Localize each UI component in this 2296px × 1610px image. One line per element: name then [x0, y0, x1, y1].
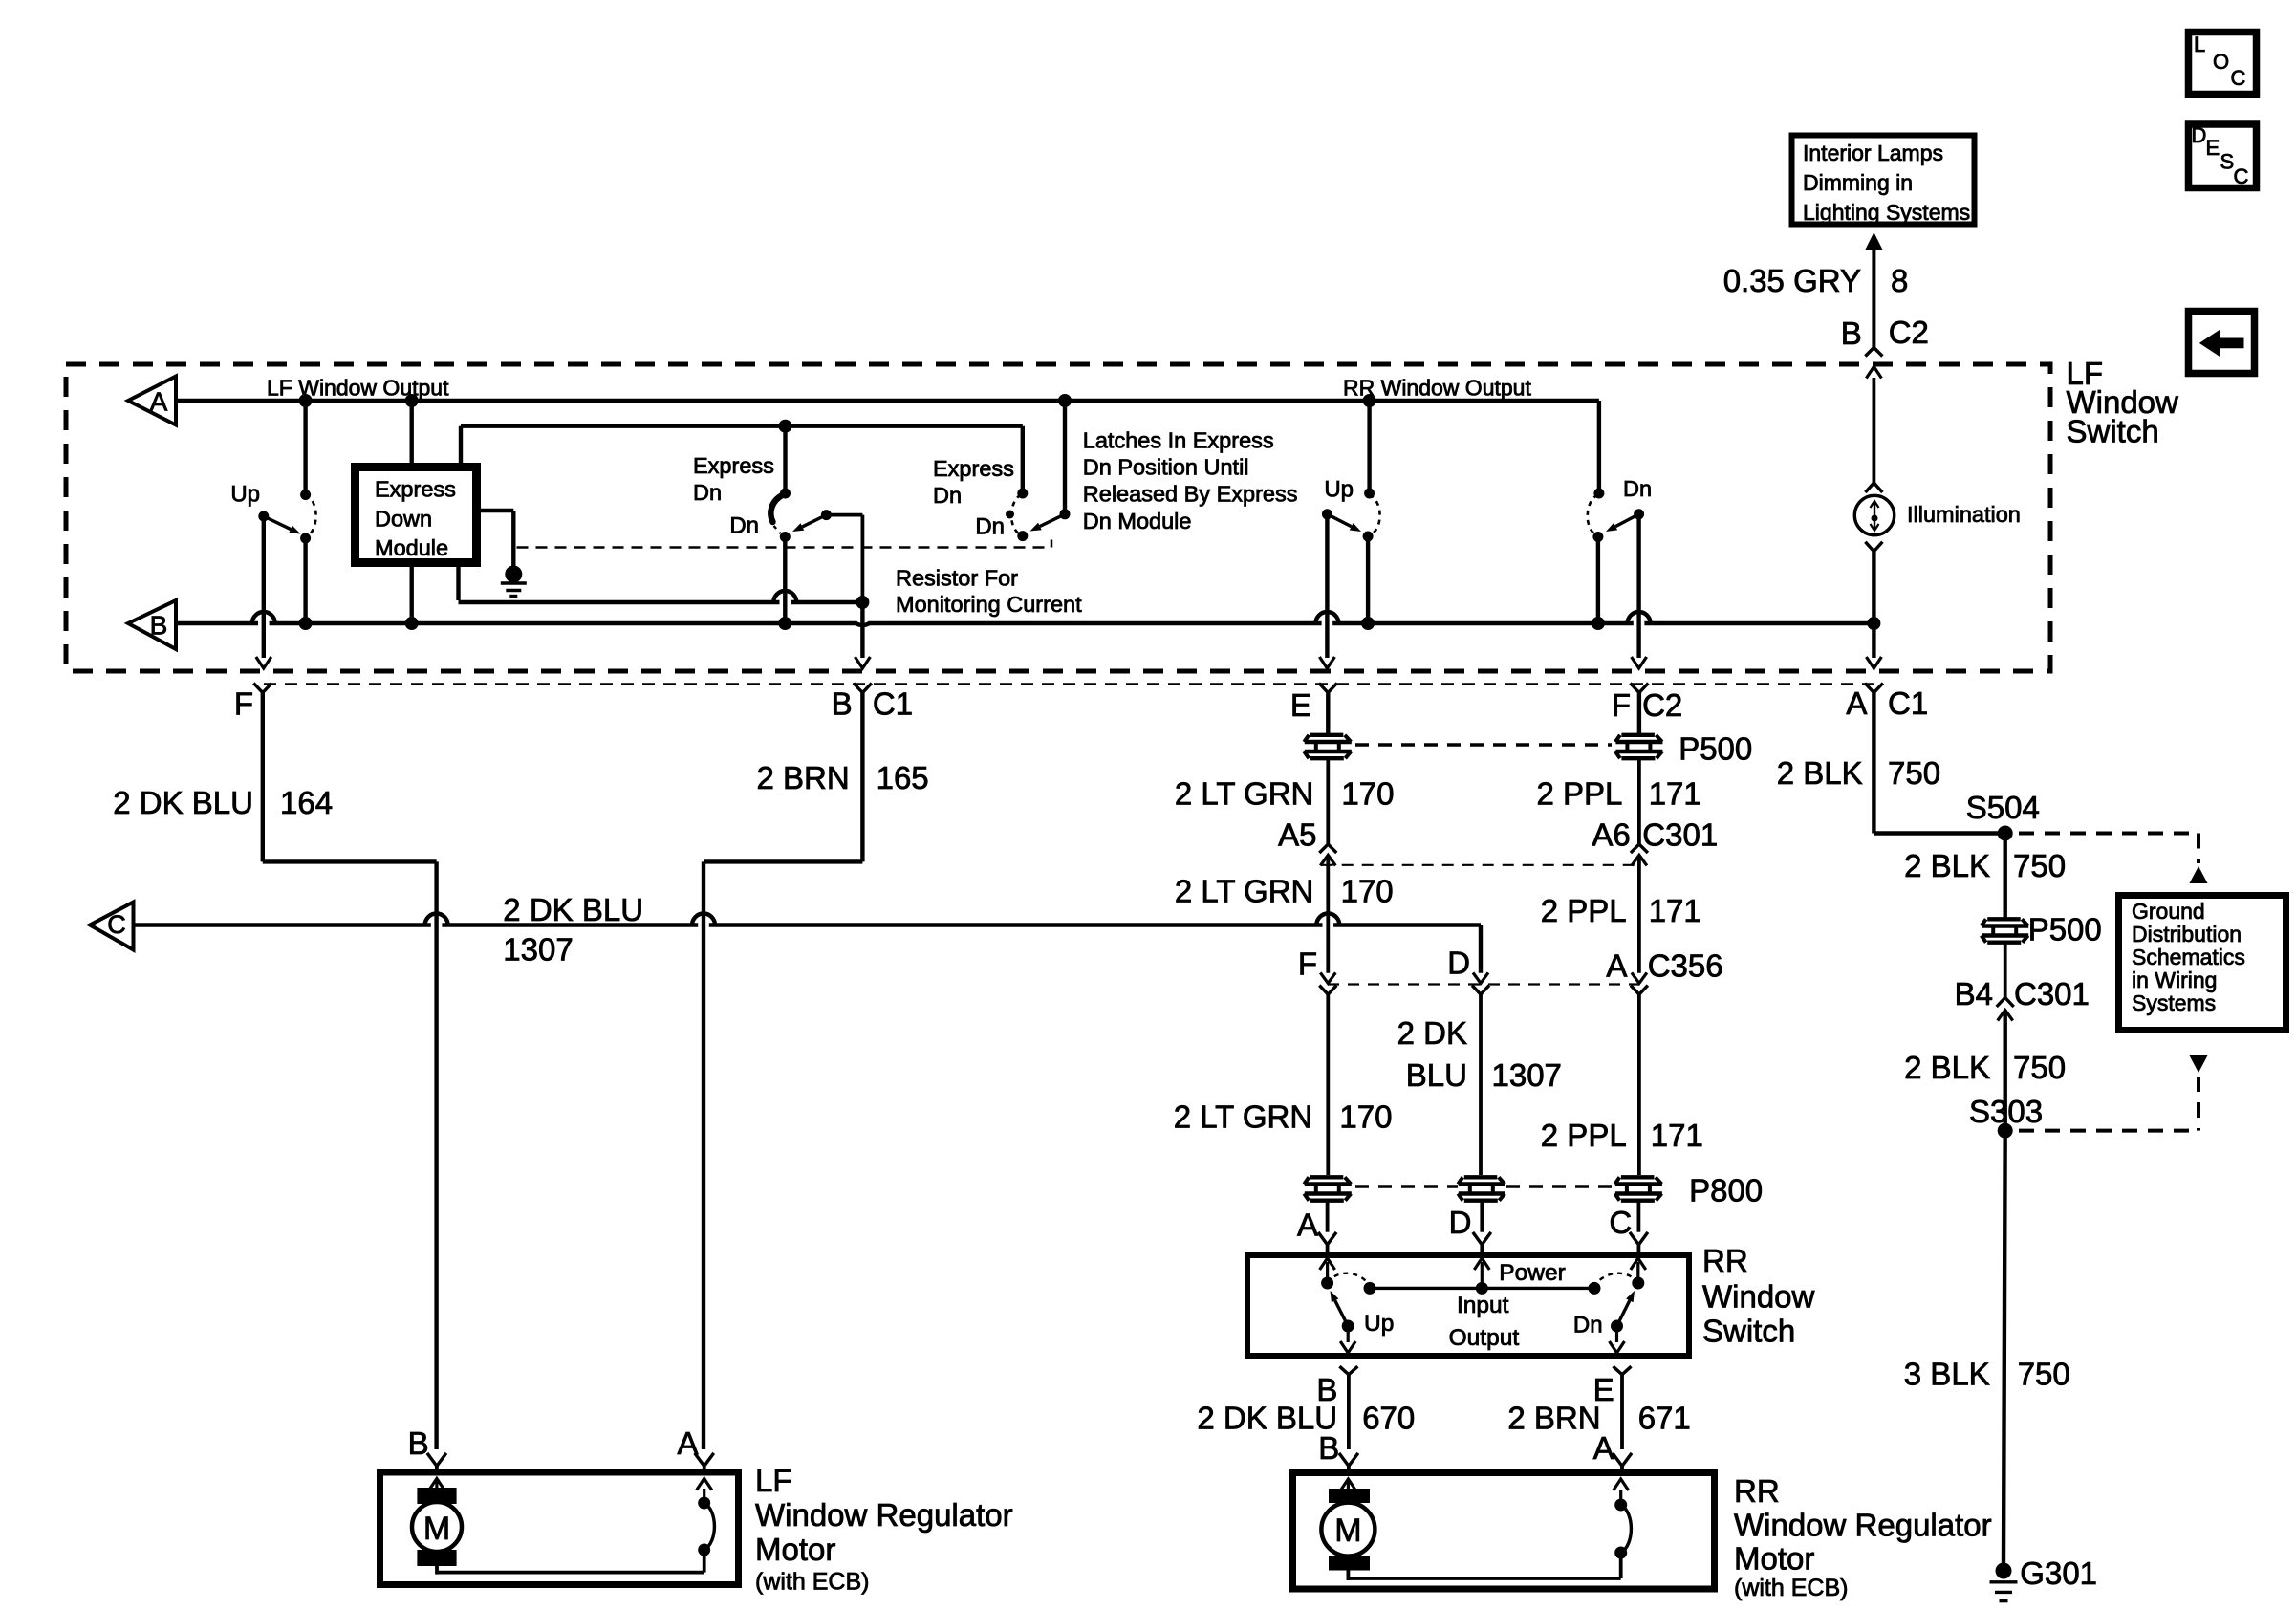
- svg-text:Window Regulator: Window Regulator: [755, 1497, 1013, 1533]
- ECB (LF motor): [703, 1550, 706, 1573]
- svg-text:C: C: [107, 910, 126, 939]
- connector D C356: [1473, 972, 1488, 983]
- svg-text:Switch: Switch: [1702, 1313, 1795, 1348]
- wire LF Up pivot to pin F: [262, 516, 266, 658]
- svg-text:O: O: [2213, 50, 2229, 74]
- svg-text:Output: Output: [1449, 1325, 1520, 1351]
- svg-text:2 PPL: 2 PPL: [1541, 893, 1627, 928]
- wire LF/RR window output (A wire): [176, 399, 1599, 402]
- svg-text:Lighting Systems: Lighting Systems: [1803, 200, 1970, 225]
- svg-text:C: C: [2231, 66, 2246, 90]
- connector D (RR switch): [1473, 1232, 1491, 1245]
- svg-text:170: 170: [1341, 776, 1394, 812]
- switch Express Dn 1: [783, 426, 787, 493]
- svg-text:LF Window Output: LF Window Output: [267, 375, 449, 400]
- destination box: Interior Lamps Dimming in Lighting Systems: [1792, 136, 1975, 225]
- svg-text:F: F: [1612, 687, 1631, 723]
- connector E (C2): [1319, 684, 1337, 693]
- svg-text:G301: G301: [2020, 1556, 2097, 1591]
- svg-text:2 LT GRN: 2 LT GRN: [1174, 1099, 1313, 1135]
- svg-text:750: 750: [2013, 848, 2066, 883]
- wire RR motor loop: [1347, 1571, 1351, 1581]
- dashed link P800: [1355, 1185, 1458, 1187]
- connector P800 right: [1621, 1175, 1655, 1179]
- dashed link S303 to ground distribution: [2190, 1055, 2208, 1073]
- wire express dn 1 pivot to monitor resistor: [826, 513, 862, 517]
- svg-text:RR: RR: [1702, 1243, 1748, 1278]
- wire to B4 C301: [2004, 945, 2007, 998]
- svg-text:671: 671: [1638, 1400, 1691, 1435]
- connector A6 C301: [1631, 844, 1648, 853]
- svg-text:2 LT GRN: 2 LT GRN: [1175, 874, 1314, 909]
- power bus wire: [1370, 1287, 1594, 1290]
- svg-text:2 DK BLU: 2 DK BLU: [503, 892, 643, 927]
- svg-text:A: A: [1297, 1207, 1318, 1242]
- wire B (switch common): [176, 621, 258, 625]
- wire RR up lower contact to B: [1366, 536, 1370, 623]
- Ground Distribution Schematics box: [2119, 896, 2286, 1031]
- svg-text:E: E: [1290, 687, 1311, 723]
- svg-text:Schematics: Schematics: [2132, 945, 2245, 969]
- connector dashed line C1 C2 row: [264, 683, 1874, 685]
- svg-text:Down: Down: [375, 506, 432, 531]
- svg-text:Power: Power: [1499, 1260, 1565, 1286]
- connector P500 pair right: [1621, 733, 1655, 737]
- svg-text:1307: 1307: [1492, 1057, 1562, 1093]
- connector forks into LF motor: [427, 1453, 446, 1467]
- switch LF Up: [300, 490, 311, 500]
- wire LF motor loop: [435, 1566, 439, 1575]
- svg-text:1307: 1307: [503, 932, 573, 968]
- svg-text:2 DK: 2 DK: [1397, 1015, 1467, 1051]
- connector P500 (ground): [1987, 917, 2021, 921]
- svg-text:in Wiring: in Wiring: [2132, 968, 2217, 992]
- splice S504: [1998, 826, 2013, 841]
- dashed link P500 pair: [1355, 743, 1612, 746]
- svg-text:B4: B4: [1955, 976, 1993, 1012]
- svg-text:Distribution: Distribution: [2132, 922, 2242, 946]
- connector B (RR switch output): [1339, 1366, 1357, 1375]
- wire 2 BLK 750 (S504 to P500): [2003, 834, 2006, 918]
- svg-text:Dn: Dn: [1623, 476, 1652, 501]
- svg-text:Monitoring Current: Monitoring Current: [896, 592, 1082, 617]
- svg-text:0.35 GRY: 0.35 GRY: [1723, 263, 1861, 298]
- wire EDM to A wire: [410, 401, 414, 463]
- Express Down Module box: [356, 468, 477, 563]
- wire 2 DK BLU 1307 (C wire): [134, 923, 431, 926]
- svg-text:165: 165: [877, 760, 929, 795]
- svg-text:A: A: [150, 386, 168, 416]
- pin C triangle: [90, 903, 134, 950]
- wire EDM ground leg: [478, 509, 513, 512]
- switch RR Up (in LF switch): [1367, 401, 1371, 493]
- svg-text:Motor: Motor: [755, 1532, 835, 1567]
- wire 2 DK BLU 164 (pin F to LF motor B): [261, 693, 265, 862]
- svg-text:2 DK BLU: 2 DK BLU: [1197, 1400, 1337, 1435]
- splice S303: [1998, 1123, 2013, 1139]
- connector C (RR switch): [1630, 1232, 1648, 1245]
- svg-text:P800: P800: [1689, 1173, 1763, 1208]
- svg-text:A: A: [1846, 685, 1867, 721]
- svg-text:2 PPL: 2 PPL: [1536, 776, 1622, 812]
- svg-text:Window: Window: [1702, 1278, 1815, 1314]
- svg-text:3 BLK: 3 BLK: [1904, 1357, 1990, 1392]
- LF window switch Up contact wire: [303, 401, 307, 495]
- RR Window Regulator Motor box: [1293, 1473, 1715, 1590]
- svg-text:(with ECB): (with ECB): [1734, 1575, 1848, 1601]
- svg-text:Resistor For: Resistor For: [896, 565, 1018, 590]
- svg-text:S504: S504: [1966, 790, 2040, 825]
- RR switch power arrow (pin D): [1481, 1262, 1484, 1288]
- svg-text:750: 750: [1888, 755, 1940, 791]
- wire RR dn lower contact to B: [1596, 537, 1600, 624]
- svg-text:Input: Input: [1457, 1293, 1509, 1318]
- motor M (RR): [1340, 1479, 1355, 1490]
- wire 2 BLK 750 (A C1 to S504): [1872, 693, 1875, 834]
- svg-text:C1: C1: [1888, 685, 1928, 721]
- mechanical link dashed line: [517, 546, 1052, 549]
- svg-text:B: B: [150, 610, 168, 640]
- svg-text:E: E: [2206, 136, 2220, 160]
- connector A5 C301: [1319, 844, 1336, 853]
- junction loop top / express dn switch 1: [779, 420, 792, 433]
- connector B C1: [854, 684, 872, 693]
- svg-text:M: M: [1334, 1512, 1361, 1549]
- svg-text:Dn: Dn: [933, 483, 962, 508]
- wire RR dn pivot to pin F C2: [1636, 514, 1640, 658]
- wire RR up pivot to pin E: [1325, 514, 1329, 658]
- svg-text:S: S: [2220, 150, 2235, 174]
- connector P800 middle: [1464, 1175, 1498, 1179]
- lamp Illumination: [1873, 378, 1876, 483]
- svg-text:C356: C356: [1648, 948, 1723, 984]
- svg-text:(with ECB): (with ECB): [755, 1569, 869, 1596]
- svg-text:Up: Up: [1364, 1311, 1394, 1337]
- connector B4 C301: [1997, 998, 2014, 1008]
- connector E (RR switch output): [1614, 1366, 1632, 1375]
- svg-text:RR: RR: [1734, 1473, 1780, 1509]
- back-arrow reference box: [2189, 312, 2255, 374]
- wire LF Up lower contact to B wire: [303, 538, 307, 623]
- svg-text:Up: Up: [1324, 477, 1354, 503]
- svg-text:L: L: [2194, 33, 2205, 56]
- svg-text:8: 8: [1891, 263, 1908, 298]
- connector F C2: [1630, 684, 1648, 693]
- svg-text:C301: C301: [2014, 976, 2090, 1012]
- switch RR window Dn (low side): [1632, 1277, 1644, 1290]
- connector A (RR switch): [1318, 1232, 1336, 1245]
- svg-text:Systems: Systems: [2132, 990, 2216, 1015]
- connector P500 pair left: [1310, 733, 1344, 737]
- svg-text:Switch: Switch: [2067, 413, 2159, 448]
- wire express loop top: [461, 424, 1023, 428]
- svg-text:D: D: [2192, 123, 2207, 147]
- RR switch pin C arrow: [1636, 1262, 1639, 1283]
- svg-text:P500: P500: [2028, 912, 2102, 947]
- svg-text:Ground: Ground: [2132, 899, 2205, 924]
- wire express dn 1 lower contact to B: [783, 537, 787, 624]
- svg-text:A: A: [1593, 1430, 1614, 1466]
- svg-text:2 DK BLU: 2 DK BLU: [113, 785, 253, 820]
- switch Express Dn 2: [1021, 489, 1025, 493]
- LOC reference box: [2189, 33, 2257, 95]
- LF Window Regulator Motor box: [380, 1472, 739, 1585]
- RR switch pin A arrow: [1326, 1262, 1329, 1283]
- svg-text:C2: C2: [1889, 315, 1929, 350]
- svg-text:170: 170: [1339, 1099, 1392, 1135]
- svg-text:Dn: Dn: [729, 513, 759, 539]
- svg-text:Dn: Dn: [693, 480, 722, 505]
- svg-text:Dn Position Until: Dn Position Until: [1083, 455, 1249, 480]
- svg-text:670: 670: [1362, 1400, 1415, 1435]
- svg-text:Motor: Motor: [1734, 1541, 1814, 1577]
- wire illumination to B wire and pin A C1: [1872, 552, 1875, 658]
- svg-text:B: B: [408, 1425, 429, 1461]
- svg-text:Express: Express: [693, 453, 774, 478]
- svg-text:C2: C2: [1642, 687, 1682, 723]
- svg-text:Dimming in: Dimming in: [1803, 170, 1913, 195]
- svg-text:Dn: Dn: [1573, 1313, 1603, 1338]
- svg-text:F: F: [234, 686, 253, 722]
- svg-text:Dn Module: Dn Module: [1083, 509, 1192, 533]
- connector B C2 (LF window switch C2 pin B): [1865, 348, 1882, 357]
- DESC reference box: [2189, 124, 2257, 188]
- dashed link S504 to ground distribution: [2019, 832, 2199, 836]
- svg-text:Express: Express: [375, 477, 456, 502]
- connector P800 left: [1310, 1175, 1344, 1179]
- svg-text:171: 171: [1651, 1118, 1703, 1153]
- svg-text:Illumination: Illumination: [1907, 502, 2021, 527]
- connector F C356: [1320, 972, 1335, 983]
- svg-text:2 BLK: 2 BLK: [1904, 848, 1990, 883]
- dashed link C301: [1322, 864, 1637, 866]
- RR switch Up contact: [1342, 1320, 1354, 1333]
- wire EDM resistor leg: [456, 567, 460, 600]
- connector A C356: [1632, 972, 1647, 983]
- ground (EDM): [505, 566, 522, 583]
- svg-text:Latches In Express: Latches In Express: [1083, 428, 1274, 453]
- svg-text:Window Regulator: Window Regulator: [1734, 1508, 1992, 1543]
- svg-text:S303: S303: [1969, 1094, 2043, 1129]
- svg-text:LF: LF: [755, 1463, 792, 1498]
- svg-text:2 BRN: 2 BRN: [1507, 1400, 1600, 1435]
- svg-text:A: A: [1606, 948, 1627, 984]
- svg-text:C301: C301: [1642, 817, 1718, 853]
- pin B triangle: [128, 600, 176, 649]
- svg-text:Up: Up: [230, 482, 260, 508]
- svg-text:Released By Express: Released By Express: [1083, 482, 1298, 507]
- svg-text:B: B: [832, 686, 853, 722]
- svg-text:750: 750: [2013, 1050, 2066, 1085]
- RR Window Switch box: [1247, 1255, 1689, 1356]
- svg-text:164: 164: [280, 785, 333, 820]
- svg-text:Interior Lamps: Interior Lamps: [1803, 141, 1943, 165]
- wire 2 PPL 171 (F C2 to RR switch C): [1637, 693, 1641, 734]
- svg-text:C: C: [2234, 164, 2249, 188]
- svg-text:2 BLK: 2 BLK: [1777, 755, 1863, 791]
- svg-text:171: 171: [1649, 893, 1701, 928]
- connector F (LF switch C1): [253, 684, 271, 693]
- svg-text:2 LT GRN: 2 LT GRN: [1175, 776, 1314, 812]
- svg-text:M: M: [423, 1511, 450, 1547]
- svg-text:B: B: [1841, 315, 1862, 351]
- dashed link C356: [1328, 983, 1639, 985]
- wire monitor resistor to pin B C1: [860, 602, 864, 658]
- svg-text:B: B: [1318, 1430, 1339, 1466]
- svg-text:A6: A6: [1592, 817, 1630, 853]
- svg-text:170: 170: [1341, 874, 1394, 909]
- connector A C1 (illumination return): [1865, 684, 1883, 693]
- svg-text:2 BRN: 2 BRN: [756, 760, 849, 795]
- svg-text:2 PPL: 2 PPL: [1541, 1118, 1627, 1153]
- svg-text:C1: C1: [873, 686, 913, 722]
- svg-text:C: C: [1609, 1205, 1632, 1240]
- svg-text:750: 750: [2018, 1357, 2070, 1392]
- wire 2 BLK 750 (C301 to S303): [2003, 1011, 2006, 1131]
- wire EDM to B wire: [410, 567, 414, 623]
- wire 2 LT GRN 170 (E to RR switch A): [1326, 693, 1330, 734]
- wire 0.35 GRY 8 to interior lamps: [1872, 250, 1875, 348]
- ground G301: [1996, 1563, 2012, 1579]
- wire 3 BLK 750 (S303 to G301): [2004, 1131, 2005, 1563]
- svg-text:2 BLK: 2 BLK: [1904, 1050, 1990, 1085]
- switch RR Dn (in LF switch): [1597, 401, 1601, 493]
- svg-text:BLU: BLU: [1406, 1057, 1467, 1093]
- svg-text:D: D: [1447, 945, 1470, 980]
- svg-text:171: 171: [1649, 776, 1701, 812]
- motor M (LF): [429, 1479, 444, 1490]
- svg-text:A5: A5: [1278, 817, 1316, 853]
- svg-text:F: F: [1298, 946, 1317, 981]
- wire express dn 2 pivot to A wire: [1063, 401, 1067, 514]
- switch RR window Up (low side): [1321, 1277, 1333, 1290]
- pin A triangle: [128, 377, 176, 425]
- svg-text:Express: Express: [933, 456, 1014, 481]
- wire 2 BRN 165 (pin B C1 to LF motor A): [860, 693, 864, 862]
- svg-text:Module: Module: [375, 535, 448, 560]
- svg-text:D: D: [1449, 1205, 1472, 1240]
- ECB (RR motor): [1619, 1553, 1623, 1578]
- LF Window Switch dashed box: [66, 364, 2050, 671]
- svg-text:Dn: Dn: [975, 514, 1005, 540]
- svg-text:P500: P500: [1679, 731, 1752, 767]
